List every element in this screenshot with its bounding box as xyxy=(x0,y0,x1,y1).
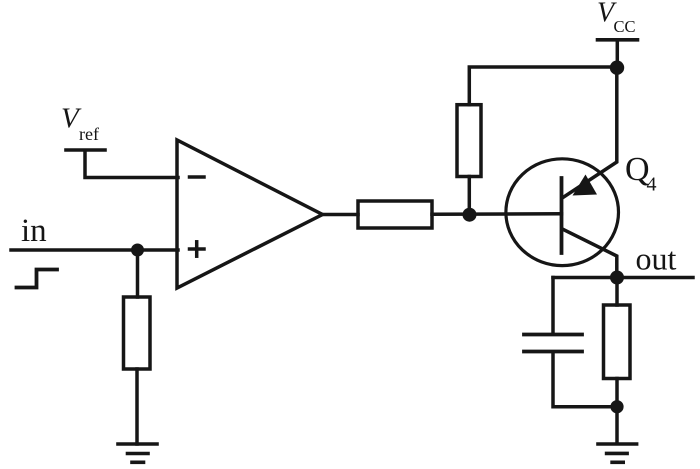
svg-text:out: out xyxy=(636,241,677,277)
svg-text:in: in xyxy=(21,213,47,249)
svg-text:4: 4 xyxy=(647,174,657,196)
svg-text:CC: CC xyxy=(614,17,636,36)
svg-text:ref: ref xyxy=(79,124,99,144)
